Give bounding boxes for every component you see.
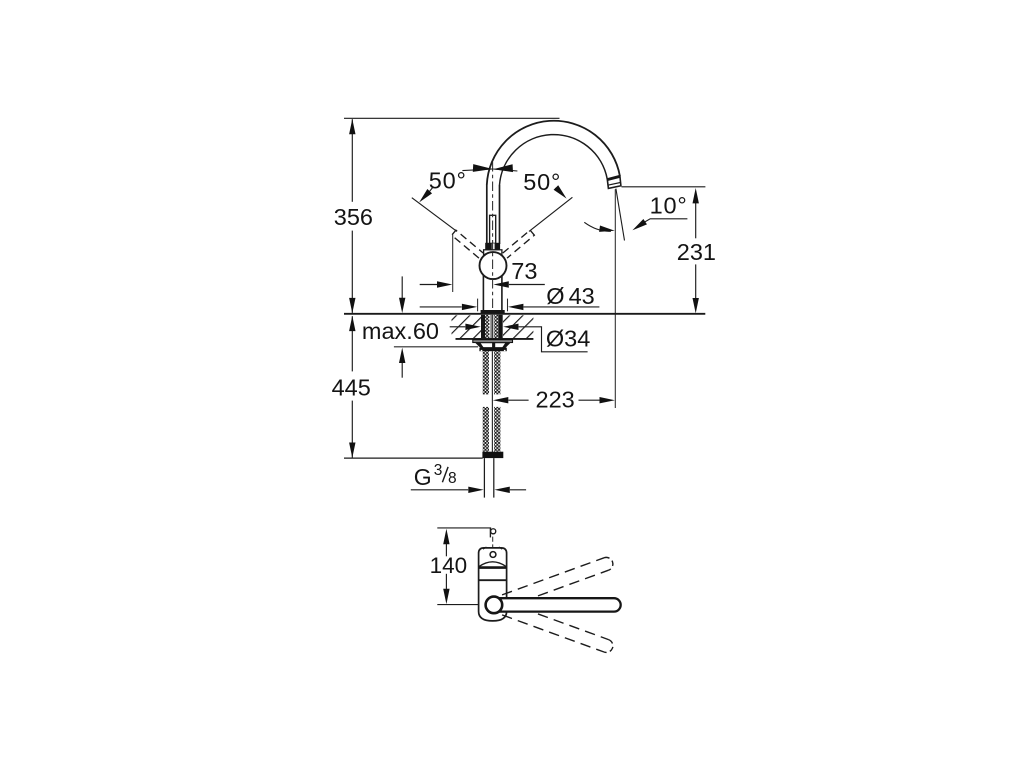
lever rotated right (dashed)	[503, 230, 535, 258]
spout pivot circle	[486, 597, 503, 614]
top view centre line dashes	[492, 537, 494, 550]
body mid line	[479, 579, 507, 581]
svg-text:43: 43	[569, 283, 595, 309]
dimension 223	[493, 397, 508, 403]
leader arrow 50deg right	[555, 188, 557, 190]
spout outer arc	[487, 121, 620, 185]
pipe below ball left edge	[482, 272, 484, 311]
lever tip mark	[489, 528, 491, 537]
counter bottom line	[456, 338, 534, 340]
dimension D43	[420, 306, 462, 308]
pipe below ball right edge	[501, 272, 503, 311]
threaded shank	[481, 315, 485, 339]
aerator top band	[607, 176, 620, 179]
hose end fitting	[482, 452, 503, 458]
angular dim tick right	[493, 169, 517, 171]
spout plan (solid capsule)	[494, 598, 621, 611]
counter line	[344, 313, 705, 315]
svg-text:140: 140	[430, 553, 468, 578]
dimension 140	[443, 529, 449, 544]
dimension max.60	[401, 276, 403, 298]
svg-text:3: 3	[434, 462, 443, 479]
lever rotated left (dashed)	[452, 230, 484, 258]
svg-text:G: G	[414, 464, 432, 490]
dimension 73 extension line	[452, 235, 454, 292]
spout swung down (dashed)	[502, 602, 615, 654]
lever collar upper tier	[485, 243, 500, 250]
swing arc with arrow	[584, 222, 611, 231]
svg-text:445: 445	[332, 374, 371, 400]
aerator outline	[607, 176, 621, 188]
mounting nut	[479, 348, 506, 352]
leader 10deg	[645, 219, 688, 222]
svg-text:73: 73	[511, 258, 537, 284]
counter hatching left	[452, 315, 482, 338]
thick band	[479, 566, 507, 569]
svg-text:Ø: Ø	[546, 283, 564, 309]
svg-text:50°: 50°	[429, 168, 467, 194]
angular arrow right	[493, 164, 513, 173]
max.60 extension line	[394, 346, 478, 348]
washer plate	[473, 340, 513, 343]
svg-text:10°: 10°	[650, 192, 688, 218]
dimension G3/8	[411, 489, 468, 491]
riser left edge	[486, 185, 488, 244]
supply hoses lower segment	[483, 407, 489, 452]
leader arrow 50deg left	[430, 187, 434, 192]
lever collar lower tier	[484, 250, 502, 255]
ball joint	[480, 252, 507, 279]
top view: extension line upper	[437, 527, 491, 529]
centre line (dash-dot)	[492, 162, 494, 311]
spout swung up (dashed)	[502, 556, 615, 608]
supply hoses upper segment	[483, 351, 489, 394]
dimension D43 extension lines	[477, 299, 479, 312]
dimension 231 line	[695, 203, 697, 239]
svg-text:231: 231	[677, 239, 716, 265]
connection tube	[483, 458, 485, 498]
base flange	[481, 310, 505, 314]
svg-text:223: 223	[536, 387, 575, 413]
top view body	[479, 548, 507, 621]
svg-text:Ø34: Ø34	[546, 326, 590, 352]
svg-text:356: 356	[334, 204, 373, 230]
top view: extension line lower	[437, 604, 478, 606]
dimension D34	[450, 326, 466, 328]
spout inner arc	[500, 135, 608, 185]
svg-text:8: 8	[448, 470, 457, 487]
handle pivot dot	[490, 552, 496, 558]
riser right edge	[499, 185, 501, 244]
lever grip rectangle	[490, 215, 496, 243]
50-deg left construction line	[412, 198, 457, 232]
top extension line	[344, 117, 560, 119]
extension line spout tip	[622, 186, 706, 188]
aerator mid line	[608, 183, 621, 186]
svg-text:max.60: max.60	[362, 318, 439, 344]
angular dim tick left	[462, 169, 492, 171]
chamfer ticks	[483, 547, 486, 549]
counter hatching right	[503, 315, 533, 338]
cone washer	[476, 343, 510, 348]
outlet extension line (223/231 reference)	[614, 189, 616, 408]
hose centre line	[491, 351, 493, 458]
dimension 73	[420, 284, 437, 286]
50-deg right construction line	[529, 197, 572, 231]
dimension 356/445 line	[351, 119, 353, 202]
stream axis 10deg line	[616, 189, 625, 241]
bottom extension line	[344, 457, 483, 459]
dome arc	[479, 562, 507, 567]
angular arrow left	[473, 164, 493, 173]
